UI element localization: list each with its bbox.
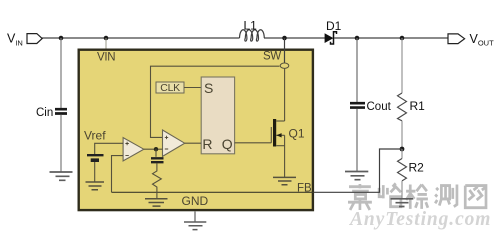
pin ellipse SW [280,63,289,68]
wire: FB net inside IC [112,191,315,193]
battery Vref [87,154,104,156]
svg-text:Vref: Vref [84,129,106,143]
channel bar [273,119,276,147]
node dot: compensation junction [154,147,158,151]
node dot: Cin junction [59,36,64,41]
svg-text:SW: SW [263,51,281,63]
wire: SW ellipse down to Q1 drain [284,69,286,122]
wire: error amp output to comparator [144,148,163,150]
svg-text:L1: L1 [244,19,258,33]
transistor Q1 [235,119,285,177]
node dot: VIN pin junction [104,36,109,41]
svg-text:Cout: Cout [367,101,392,113]
node dot: Cout node [355,36,360,41]
drain stub [276,120,284,122]
terminal VOUT connector [448,34,465,44]
ground (Cout) [345,172,368,180]
char 测 [435,185,457,207]
ground (R2) [391,199,414,207]
wire: ramp feedback loop to comparator [151,66,280,137]
wire: SW riser into IC [284,38,286,63]
ground (compensation) [145,199,168,206]
svg-text:VOUT: VOUT [470,32,495,48]
ground (Vref) [86,182,105,190]
svg-text:CLK: CLK [160,82,180,94]
wire: CLK to S input [184,87,201,89]
ground (GND pin) [184,222,206,230]
char 嘉 [348,184,372,210]
wire: VIN pin riser [105,38,107,49]
wire: GND pin stem [194,212,196,222]
svg-text:VIN: VIN [7,32,23,48]
char 网 [465,186,486,208]
svg-text:Q1: Q1 [289,127,305,141]
body arrow stub [276,134,284,136]
resistor R2 [401,149,403,159]
inductor L1 [240,30,265,41]
diode D1 (schottky) [325,34,333,42]
svg-text:FB: FB [297,183,312,195]
svg-text:VIN: VIN [97,52,115,64]
wire: Cout branch [356,38,358,102]
wire: Vref to error amp [95,143,123,154]
wire: Q output to gate [235,142,272,144]
clock block CLK [156,82,184,93]
svg-text:R2: R2 [409,161,425,175]
svg-text:S: S [204,80,213,96]
capacitor compensation [155,149,157,157]
svg-text:AnyTesting.com: AnyTesting.com [348,209,491,230]
node dot: R1 top node [400,36,405,41]
wire: source down [284,135,286,177]
wire: FB riser to error amp inverting input [112,156,124,193]
ground (Cin) [50,172,73,180]
capacitor Cin [55,109,67,113]
capacitor Cout [350,103,365,107]
wire: Cout to ground [356,109,358,171]
comparator [163,130,185,156]
ground (Q1 source) [273,177,296,184]
op-amp error amplifier [123,138,144,161]
wire: top rail VIN to VOUT [42,37,448,39]
char 检 [406,185,428,209]
node dot: feedback divider [400,147,405,152]
wire: battery to ground [94,162,96,182]
watermark [348,183,486,210]
wire: Cin to ground [60,115,62,172]
IC block body [79,50,313,210]
svg-text:Cin: Cin [36,107,53,119]
terminal VIN connector [27,34,42,44]
node dot: SW node [282,36,287,41]
resistor compensation [153,164,162,199]
wire: Cin branch [60,38,62,108]
svg-text:R1: R1 [410,99,426,113]
svg-text:D1: D1 [326,19,342,33]
latch U1 (SR flip-flop) [201,77,234,154]
gate plate [270,127,272,143]
svg-text:GND: GND [182,194,209,208]
char 峪 [379,183,401,206]
svg-text:Q: Q [222,136,233,152]
resistor R1 [401,38,403,93]
source stub [276,145,284,147]
wire: FB outside route [314,149,402,192]
wire: comparator output to R [185,142,202,144]
svg-text:R: R [202,136,212,152]
